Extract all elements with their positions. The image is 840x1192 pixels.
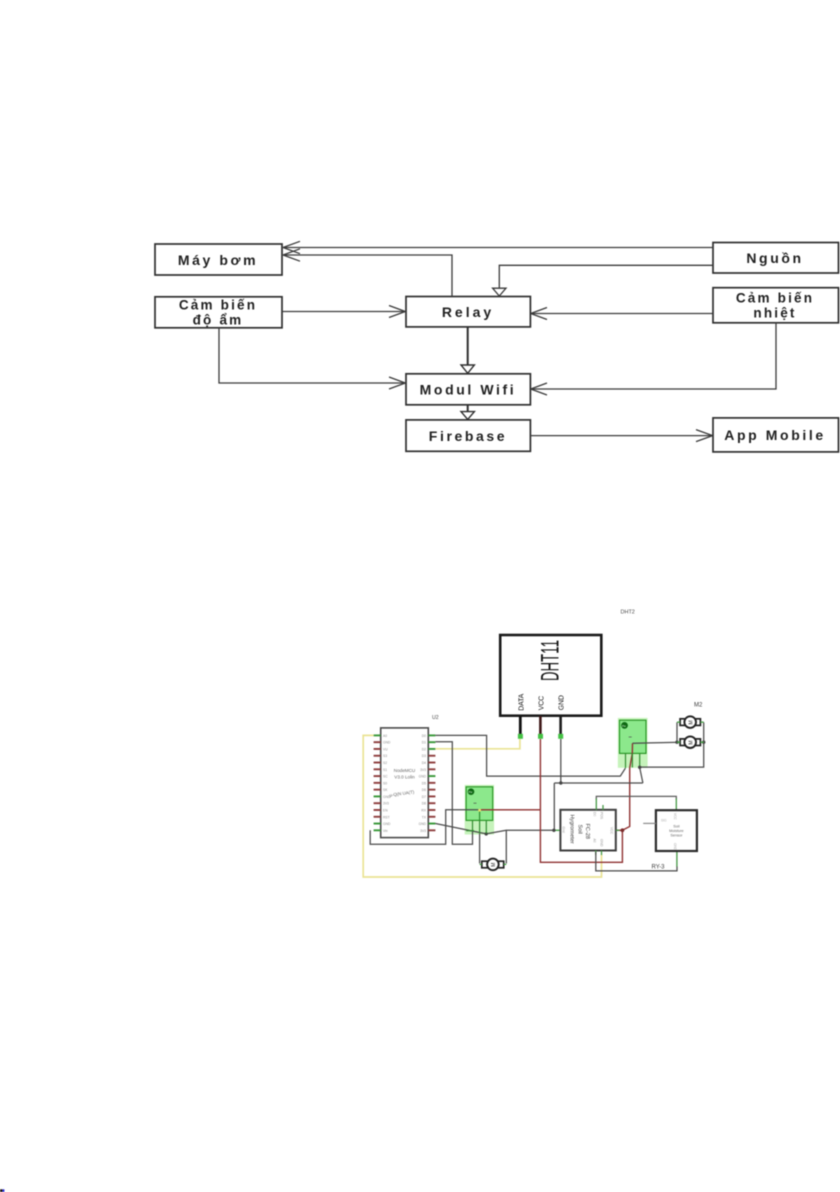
wire green FC-28 Gnd lead [554, 829, 562, 831]
svg-text:Sensor: Sensor [670, 834, 683, 838]
relay module RY2 [618, 718, 648, 768]
wire Cảm biến nhiệt to Modul Wifi [531, 323, 776, 395]
wire gray NodeMCU Vin to relay RY1 signal [370, 810, 478, 844]
svg-text:Relay: Relay [442, 304, 494, 320]
svg-text:Nguồn: Nguồn [746, 250, 803, 266]
wire Cảm biến nhiệt to Relay [531, 308, 713, 320]
svg-text:3V3: 3V3 [420, 768, 426, 772]
wire gray motor M1 right to GND bus [505, 830, 507, 863]
wire yellow NodeMCU A0 to FC-28 A0 (big loop) [363, 735, 601, 877]
wire gray relay RY1 to motor M1 left [479, 834, 481, 864]
svg-text:GND: GND [559, 695, 566, 710]
wire gray NodeMCU D1 to relay RY1 in [435, 742, 472, 844]
wire gray DHT11 GND down [560, 739, 562, 783]
block App Mobile [713, 418, 839, 452]
svg-text:Firebase: Firebase [429, 428, 507, 444]
svg-text:D3: D3 [422, 754, 426, 758]
wire Cảm biến độ ẩm to Relay [282, 306, 405, 318]
block Modul Wifi [406, 374, 530, 405]
svg-text:M: M [491, 863, 497, 867]
svg-text:GND: GND [383, 741, 391, 745]
svg-text:VCC: VCC [673, 813, 677, 820]
svg-text:độ ẩm: độ ẩm [193, 313, 244, 328]
wire gray GND bus under relay RY2 [554, 768, 643, 831]
block Firebase [406, 420, 530, 451]
module NodeMCU U2 [381, 728, 429, 838]
svg-text:D0: D0 [593, 812, 597, 816]
wire red junction up to relay RY2 [622, 743, 632, 830]
svg-text:VU: VU [383, 747, 388, 751]
svg-text:D0: D0 [422, 734, 426, 738]
svg-text:Máy bơm: Máy bơm [178, 252, 258, 268]
svg-text:VCC: VCC [610, 827, 614, 835]
wire FC-28 D0 to soil sensor [596, 796, 676, 799]
junction dot motor right [702, 741, 705, 744]
sensor DHT11 [500, 635, 601, 716]
svg-text:Cảm biến: Cảm biến [179, 298, 257, 313]
wire Nguồn to Relay [493, 265, 713, 296]
svg-text:Soil: Soil [577, 825, 583, 834]
svg-text:RST: RST [383, 815, 390, 819]
wire gray relay RY2 to motors [633, 742, 681, 743]
junction dot relay1 out [485, 832, 488, 835]
svg-text:D1: D1 [422, 741, 426, 745]
svg-text:Gnd: Gnd [561, 827, 565, 834]
wire red DHT11 VCC down [539, 739, 541, 810]
svg-text:NodeMCU: NodeMCU [394, 768, 415, 773]
junction dot GND/DHT [559, 781, 562, 784]
svg-text:DHT2: DHT2 [621, 610, 635, 616]
block Cảm biến độ ẩm [155, 297, 282, 328]
svg-text:Vin: Vin [383, 829, 388, 833]
motor M1 (bottom) [480, 859, 507, 871]
svg-text:S1: S1 [383, 768, 387, 772]
svg-text:SIG: SIG [661, 819, 667, 823]
junction dot motor left [675, 741, 678, 744]
junction dot GND bus [552, 829, 555, 832]
wire gray motor rail left [676, 722, 678, 742]
svg-text:Soil: Soil [673, 825, 679, 829]
wire gray motor rail right to relay RY2 [640, 722, 704, 767]
svg-text:RY-3: RY-3 [652, 865, 666, 871]
svg-text:U2: U2 [432, 715, 439, 721]
wire gray NodeMCU D0 to relay RY2 in [435, 735, 625, 776]
svg-text:FC-28: FC-28 [584, 824, 590, 840]
svg-text:A0: A0 [383, 734, 387, 738]
svg-text:SC: SC [383, 775, 388, 779]
motor M2 (top right) [677, 716, 704, 728]
svg-text:Moisture: Moisture [669, 829, 684, 833]
pin DHT11 VCC lead [539, 716, 542, 734]
wire Firebase to App Mobile [530, 430, 712, 442]
page corner mark [0, 1189, 2, 1192]
svg-text:GND: GND [600, 839, 604, 847]
junction dot red VCC [621, 828, 625, 832]
block Cảm biến nhiệt [713, 288, 839, 323]
FC-28 top/bottom pin stubs [596, 805, 620, 855]
block Relay [406, 297, 530, 327]
wire red relay RY1 to VCC rail [481, 809, 541, 811]
relay module RY1 [465, 785, 494, 835]
sensor FC-28 Soil Hygrometer [560, 810, 615, 851]
svg-text:A0: A0 [593, 839, 597, 843]
wire gray NodeMCU GND diagonal to FC-28 Gnd [435, 824, 553, 834]
svg-text:D6: D6 [422, 788, 426, 792]
block Nguồn [713, 243, 839, 274]
relay RY1 pin stubs [466, 811, 486, 834]
relay RY2 pin stubs [626, 753, 640, 768]
svg-text:GND: GND [383, 795, 391, 799]
svg-text:DATA: DATA [519, 693, 526, 710]
svg-text:D4: D4 [422, 761, 426, 765]
svg-text:GND: GND [673, 843, 677, 851]
svg-text:Pw: Pw [469, 790, 473, 794]
junction dot relay RY2 out [638, 766, 641, 769]
svg-text:V3.0 Lolin: V3.0 Lolin [394, 775, 415, 780]
motor M3 (right lower) [677, 736, 704, 748]
block Máy bơm [155, 244, 282, 275]
svg-text:EN: EN [383, 808, 388, 812]
svg-text:VCC: VCC [539, 696, 546, 710]
pin DHT11 GND lead [559, 716, 562, 734]
wire green soil sensor bottom [676, 851, 678, 866]
sensor Soil Moisture [643, 810, 697, 851]
svg-text:3V3: 3V3 [420, 829, 426, 833]
wire Cảm biến độ ẩm to Modul Wifi [219, 328, 405, 389]
svg-text:nhiệt: nhiệt [753, 306, 796, 321]
wire red VCC rail down to FC-28 [540, 810, 622, 863]
wire Relay to Máy bơm [283, 249, 452, 297]
svg-text:D2: D2 [422, 747, 426, 751]
pin DHT11 DATA lead [519, 716, 522, 734]
svg-text:DHT11: DHT11 [537, 640, 565, 681]
svg-text:Cảm biến: Cảm biến [736, 291, 814, 306]
relay RY1 yellow pad [478, 809, 481, 812]
wire yellow NodeMCU D2 to DHT11 DATA [435, 739, 520, 749]
arrow Modul Wifi to Firebase [461, 405, 474, 420]
svg-text:M: M [688, 720, 694, 724]
svg-text:RX: RX [421, 808, 426, 812]
svg-text:Modul Wifi: Modul Wifi [420, 382, 517, 398]
wire gray FC-28 A0-side to soil sensor bottom [596, 852, 677, 871]
svg-text:App Mobile: App Mobile [724, 427, 825, 443]
svg-text:M2: M2 [694, 703, 703, 709]
svg-text:S0: S0 [383, 781, 387, 785]
NodeMCU pin leads [374, 734, 436, 833]
svg-text:3V3: 3V3 [383, 802, 389, 806]
svg-text:GND: GND [419, 775, 427, 779]
svg-text:S3: S3 [383, 754, 387, 758]
svg-text:GND: GND [419, 822, 427, 826]
svg-text:D8: D8 [422, 802, 426, 806]
svg-text:D7: D7 [422, 795, 426, 799]
svg-text:GND: GND [383, 822, 391, 826]
svg-text:Pw: Pw [622, 724, 626, 728]
svg-text:D5: D5 [422, 781, 426, 785]
svg-text:M: M [688, 740, 694, 744]
wire red junction to FC-28 VCC [616, 829, 622, 831]
svg-text:Hygrometer: Hygrometer [569, 815, 575, 844]
svg-text:S2: S2 [383, 761, 387, 765]
wire Nguồn to Máy bơm [283, 241, 713, 253]
arrow Relay to Modul Wifi [461, 327, 474, 373]
svg-text:POS: POS [600, 812, 604, 820]
